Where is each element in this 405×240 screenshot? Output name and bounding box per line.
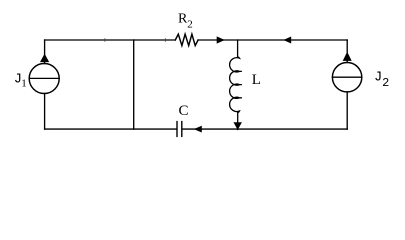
svg-text:C: C <box>179 103 189 119</box>
svg-text:J: J <box>374 70 382 85</box>
svg-text:2: 2 <box>382 76 389 90</box>
svg-text:L: L <box>252 72 261 88</box>
svg-text:2: 2 <box>187 18 193 30</box>
svg-text:1: 1 <box>21 78 27 90</box>
